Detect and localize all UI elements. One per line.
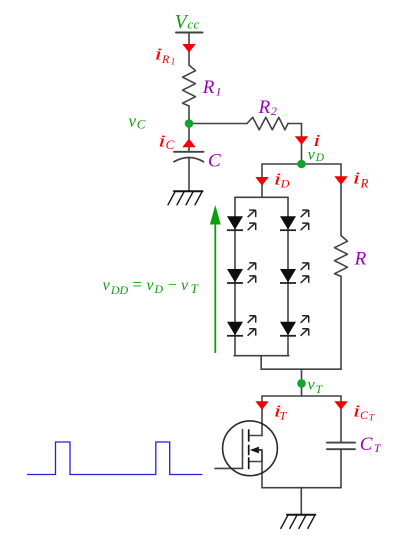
svg-text:1: 1: [216, 84, 222, 98]
svg-text:v: v: [103, 277, 111, 294]
svg-text:v: v: [181, 277, 189, 294]
svg-text:DD: DD: [110, 283, 129, 297]
svg-text:i: i: [353, 169, 361, 188]
svg-text:2: 2: [271, 104, 277, 118]
svg-text:v: v: [146, 277, 154, 294]
svg-text:R: R: [161, 52, 170, 66]
svg-text:C: C: [208, 150, 221, 171]
svg-text:C: C: [166, 137, 175, 152]
svg-text:=: =: [131, 275, 142, 294]
svg-text:i: i: [158, 132, 166, 151]
svg-text:T: T: [191, 281, 199, 296]
svg-text:R: R: [202, 77, 215, 98]
svg-text:−: −: [167, 277, 178, 294]
svg-text:1: 1: [171, 57, 176, 67]
svg-text:v: v: [129, 111, 137, 130]
svg-text:R: R: [354, 249, 367, 270]
svg-text:C: C: [360, 434, 373, 455]
svg-text:D: D: [280, 177, 290, 191]
svg-text:v: v: [308, 377, 316, 394]
svg-text:C: C: [137, 117, 146, 132]
svg-text:i: i: [313, 131, 321, 150]
svg-text:R: R: [360, 176, 369, 190]
svg-text:T: T: [369, 413, 375, 423]
svg-text:D: D: [153, 282, 163, 296]
svg-text:D: D: [315, 152, 325, 164]
svg-text:cc: cc: [187, 16, 199, 31]
svg-text:C: C: [360, 408, 369, 422]
svg-text:i: i: [155, 44, 163, 63]
svg-text:R: R: [258, 97, 271, 118]
